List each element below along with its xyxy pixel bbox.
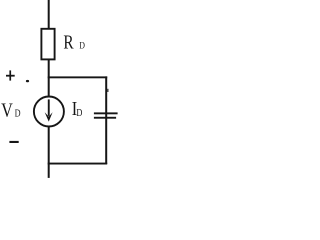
svg-text:D: D (76, 108, 82, 119)
minus sign (-) (9, 141, 18, 143)
current source ID (circle) (34, 97, 64, 127)
wire: right vertical branch (105, 76, 107, 164)
svg-text:R: R (63, 30, 73, 52)
capacitor C (top plate) (94, 112, 118, 114)
scan tick on right wire (107, 89, 108, 92)
capacitor C (bottom plate) (94, 117, 116, 119)
resistor RD (body) (41, 29, 54, 60)
wire: bottom horizontal rail (48, 163, 107, 165)
svg-text:D: D (15, 109, 21, 120)
current source ID (arrow) (45, 99, 53, 121)
wire: horizontal branch to capacitor (node) (48, 76, 107, 78)
plus sign (+) (6, 70, 15, 80)
label V_D (1, 99, 21, 121)
svg-text:D: D (79, 40, 85, 51)
wire: resistor bottom to current source top (48, 59, 50, 98)
svg-text:V: V (1, 99, 13, 121)
node dot (26, 80, 29, 82)
wire: top lead into resistor (48, 0, 50, 30)
label R_D (63, 30, 85, 52)
wire: current source bottom to bottom rail (48, 126, 50, 178)
label I_D (72, 98, 83, 120)
